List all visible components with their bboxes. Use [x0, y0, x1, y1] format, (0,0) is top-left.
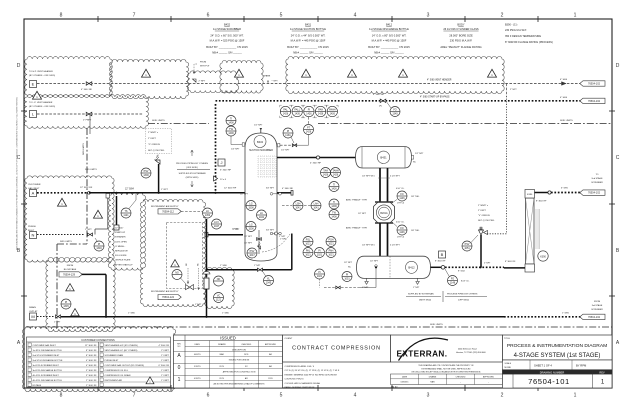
svg-text:LC: LC [260, 212, 263, 215]
discharge pipe to cooler [431, 266, 442, 268]
svg-text:INSTRUMENT AIR SUPPLY: INSTRUMENT AIR SUPPLY [151, 290, 179, 293]
svg-text:SUCTION SCRUBBER: SUCTION SCRUBBER [249, 150, 273, 152]
svg-text:B412: B412 [386, 23, 393, 27]
svg-text:INSTRUMENT AIR SUPPLY: INSTRUMENT AIR SUPPLY [151, 205, 179, 208]
skid limits line bottom [26, 326, 612, 328]
svg-text:3" 300# RF: 3" 300# RF [86, 375, 97, 377]
svg-text:1" FNPT: 1" FNPT [161, 380, 170, 382]
svg-text:5: 5 [280, 13, 283, 19]
svg-text:2" NPT: 2" NPT [510, 89, 517, 91]
svg-text:1426: 1426 [330, 113, 336, 116]
svg-text:FO: FO [393, 108, 396, 111]
svg-text:RCS: RCS [220, 366, 225, 368]
drain valve on loop [258, 268, 263, 271]
svg-text:(BY OTHERS - OFF SKID): (BY OTHERS - OFF SKID) [29, 106, 55, 108]
svg-text:1/2" NPT: 1/2" NPT [254, 125, 263, 127]
purge inlet note [28, 226, 36, 232]
mesh pad in scrubber [258, 156, 276, 177]
svg-text:1121: 1121 [123, 214, 129, 217]
client box [283, 335, 391, 362]
instrument XL 1045 bubble [264, 276, 274, 286]
discharge legs to B412 [379, 223, 381, 257]
svg-text:ORIFICE PLATE: ORIFICE PLATE [115, 259, 131, 262]
svg-text:B432: B432 [224, 23, 231, 27]
svg-text:RCS: RCS [244, 354, 249, 356]
svg-text:PAL: PAL [306, 249, 311, 252]
flag 76504-129 [59, 272, 82, 277]
svg-text:FO: FO [400, 227, 403, 230]
revision triangle top row [142, 69, 151, 77]
svg-text:1" FNPT: 1" FNPT [161, 370, 170, 372]
svg-text:BUILT BY: ____________ Y/N 2: BUILT BY: ____________ Y/N 2015 [368, 45, 410, 49]
svg-text:1021: 1021 [317, 254, 323, 257]
svg-text:1" NPT: 1" NPT [161, 189, 169, 191]
svg-text:J: J [221, 160, 223, 165]
svg-text:NO: NO [175, 271, 179, 274]
svg-text:2" FNPT: 2" FNPT [161, 350, 170, 352]
svg-text:1047: 1047 [249, 254, 255, 257]
svg-text:CHECKED: CHECKED [241, 344, 251, 346]
vessel B431 suction bottle [356, 147, 412, 168]
svg-text:1041: 1041 [313, 207, 319, 210]
svg-text:6" 300# RF: 6" 300# RF [220, 170, 232, 172]
svg-text:1/2" NPT: 1/2" NPT [240, 194, 249, 196]
svg-text:4" 300# RF: 4" 300# RF [86, 360, 97, 362]
HP vent header pipe dashed [37, 83, 288, 85]
svg-text:NAR: NAR [430, 381, 435, 384]
svg-text:~" NPT: ~" NPT [271, 81, 278, 83]
svg-text:(OFF SKID): (OFF SKID) [186, 167, 198, 169]
svg-text:CHECKED: CHECKED [456, 377, 466, 379]
connection box A [30, 190, 37, 197]
svg-text:2" NPT: 2" NPT [232, 229, 239, 231]
svg-text:RCS: RCS [268, 378, 273, 380]
svg-text:B: B [441, 252, 444, 257]
svg-text:1400: 1400 [228, 122, 234, 125]
svg-text:PSH: PSH [329, 238, 334, 241]
svg-text:1300: 1300 [143, 174, 149, 177]
svg-text:7: 7 [133, 393, 136, 399]
instrument FO 1146 bottom bubble [397, 225, 407, 235]
pipe junction dots [105, 316, 107, 318]
svg-text:CUSTOMER GAS INLET: CUSTOMER GAS INLET [33, 344, 57, 347]
svg-text:PI: PI [346, 273, 349, 276]
svg-text:1" NPT: 1" NPT [362, 287, 369, 289]
svg-text:DESCRIPTION: DESCRIPTION [232, 350, 246, 352]
scope split note center [176, 150, 210, 187]
svg-text:0: 0 [178, 365, 181, 371]
svg-text:1146: 1146 [399, 197, 405, 200]
svg-text:2" 300# RF: 2" 300# RF [86, 385, 97, 387]
svg-text:76504-101: 76504-101 [528, 377, 570, 386]
svg-text:SPARE: SPARE [263, 75, 271, 78]
scrubber spare nozzle 4in [277, 192, 291, 194]
svg-text:PSL: PSL [306, 238, 311, 241]
svg-text:1021: 1021 [305, 243, 311, 246]
svg-text:TI: TI [333, 183, 335, 186]
svg-text:76504-102: 76504-102 [588, 83, 601, 86]
svg-text:NB # ______ S/N ______: NB # ______ S/N ______ [374, 51, 404, 55]
svg-text:STRAINER: STRAINER [115, 236, 126, 239]
svg-text:4/02/15: 4/02/15 [194, 354, 202, 356]
svg-text:TI: TI [333, 201, 335, 204]
svg-text:0.50" I.D.: 0.50" I.D. [396, 188, 405, 190]
svg-text:PI: PI [318, 249, 321, 252]
svg-text:76504-122: 76504-122 [162, 296, 175, 299]
svg-text:4/12/15: 4/12/15 [194, 378, 202, 380]
svg-text:AREL "PEANUT" TYPE: AREL "PEANUT" TYPE [346, 199, 368, 202]
revision triangle blowcase [66, 284, 75, 291]
svg-text:8" 300# RF: 8" 300# RF [536, 201, 547, 203]
svg-text:SKID LIMITS: SKID LIMITS [85, 169, 97, 171]
svg-text:4" 300# RF: 4" 300# RF [159, 345, 170, 347]
svg-text:AFTER START-UP: AFTER START-UP [115, 263, 133, 266]
svg-text:BY-PASS: BY-PASS [33, 384, 42, 387]
svg-text:12" 300# RF: 12" 300# RF [224, 188, 237, 190]
svg-text:1: 1 [574, 13, 577, 19]
tee to 2 NPT on vent [506, 84, 508, 97]
svg-text:2: 2 [501, 393, 504, 399]
drawing number block [503, 370, 613, 388]
svg-text:EXTERRAN.: EXTERRAN. [397, 350, 448, 359]
instrument LCV 1047 bubble [212, 219, 222, 229]
svg-text:1146: 1146 [399, 231, 405, 234]
node L to LP vent header [29, 101, 55, 108]
svg-text:1051: 1051 [464, 247, 470, 250]
svg-text:APPROVED: APPROVED [265, 343, 277, 346]
valve on HP vent line [86, 82, 92, 85]
svg-text:(F): (F) [379, 106, 382, 108]
discharge PSV note block [478, 205, 495, 222]
svg-text:VENT HEADER-H.P. (BY OTHERS): VENT HEADER-H.P. (BY OTHERS) [105, 344, 138, 347]
svg-text:START-UP: START-UP [115, 231, 126, 234]
scrubber drain piping loop [205, 229, 292, 270]
svg-text:6" 300# RF: 6" 300# RF [159, 365, 170, 367]
PSV vent dotted to header [487, 233, 507, 235]
svg-text:B432: B432 [257, 140, 264, 144]
B412 drain valves [362, 278, 420, 289]
svg-text:2nd STAGE: 2nd STAGE [592, 177, 604, 180]
svg-text:TO: TO [596, 174, 599, 176]
svg-text:SKID LIMITS: SKID LIMITS [83, 143, 85, 155]
svg-text:SCRUBBER: SCRUBBER [591, 182, 603, 184]
svg-text:3/4" NPT: 3/4" NPT [266, 230, 275, 232]
svg-text:PT: PT [307, 126, 311, 129]
svg-text:INSTRUMENT AIR: INSTRUMENT AIR [105, 379, 123, 382]
svg-text:(TYP. 2): (TYP. 2) [397, 237, 405, 239]
svg-text:SUPPLIED BY EXTERRAN: SUPPLIED BY EXTERRAN [179, 172, 206, 175]
svg-text:SET @ 230 PSIG: SET @ 230 PSIG [148, 150, 165, 152]
svg-text:4" S/60 VENT HEADER: 4" S/60 VENT HEADER [427, 79, 452, 82]
instrument PI 1345 bubble [61, 299, 71, 309]
drain outlet note [29, 306, 38, 313]
instrument LC 1452 bubble [203, 208, 213, 218]
svg-text:3" 300# RF: 3" 300# RF [86, 370, 97, 372]
cooler outlet pipe [535, 192, 549, 194]
vessel B432 suction scrubber [245, 133, 277, 261]
svg-text:12" 300# RF: 12" 300# RF [85, 345, 97, 347]
scale sheet row [503, 360, 613, 370]
pressure alarm bubble row PAL PALL PI PAH PAHH [280, 106, 290, 116]
svg-text:76504-102: 76504-102 [588, 316, 601, 319]
svg-text:FROM: FROM [200, 62, 206, 64]
svg-text:1/2" NPT: 1/2" NPT [244, 236, 253, 238]
svg-text:1426: 1426 [283, 113, 289, 116]
svg-text:DRAIN: DRAIN [29, 306, 36, 309]
svg-text:1021: 1021 [305, 254, 311, 257]
svg-text:PAH: PAH [329, 249, 334, 252]
svg-text:NB # ______ S/N ______: NB # ______ S/N ______ [212, 51, 242, 55]
svg-text:BUILT BY: ____________ Y/N 2: BUILT BY: ____________ Y/N 2015 [206, 45, 248, 49]
svg-text:TS: TS [124, 210, 127, 213]
svg-text:WTR POT: WTR POT [200, 66, 210, 68]
svg-text:1345: 1345 [63, 305, 69, 308]
instrument PT 1426 bubble [304, 125, 314, 135]
svg-text:1" FNPT: 1" FNPT [161, 375, 170, 377]
equipment note compressor cylinder body [440, 23, 481, 50]
revision cloud customer connections table [22, 326, 175, 391]
start-up strainer drop [116, 196, 118, 225]
svg-text:8: 8 [60, 13, 63, 19]
svg-text:3/4" NPT: 3/4" NPT [266, 188, 275, 190]
svg-text:2" FNPT: 2" FNPT [148, 138, 157, 140]
svg-text:DRAWN: DRAWN [429, 376, 437, 379]
svg-text:1" FNPT: 1" FNPT [161, 360, 170, 362]
svg-text:8.03" I.D.: 8.03" I.D. [461, 281, 470, 283]
svg-text:TAH: TAH [323, 169, 328, 172]
instrument valve on PT tap [292, 144, 296, 147]
svg-text:03/18/15: 03/18/15 [401, 382, 410, 384]
revision cloud top small [109, 59, 188, 98]
revision triangle table [146, 377, 154, 384]
svg-text:5/12/15: 5/12/15 [194, 366, 202, 368]
instrument PI 1021 bubble [315, 269, 325, 279]
cooler fin coil [535, 210, 539, 248]
svg-text:COUPLING: F3H-70: COUPLING: F3H-70 [285, 379, 305, 381]
svg-text:1/2" NPT: 1/2" NPT [281, 150, 290, 152]
svg-text:CUSTOMER GAS OUTLET (BY OTHERS: CUSTOMER GAS OUTLET (BY OTHERS) [105, 364, 145, 367]
bubble NO in air box [172, 270, 182, 280]
svg-text:LG: LG [249, 223, 252, 226]
from blowcase note [64, 265, 77, 271]
svg-text:1/4" NPT W/ 0: 1/4" NPT W/ 0 [362, 245, 376, 247]
instrument XL 1047 bubble [247, 248, 257, 258]
svg-text:FO: FO [451, 277, 454, 280]
svg-text:PAL: PAL [283, 108, 288, 111]
svg-text:FROM: FROM [67, 265, 74, 267]
svg-text:(BY OTHERS - OFF SKID): (BY OTHERS - OFF SKID) [29, 75, 55, 77]
svg-text:4" 300# RF: 4" 300# RF [373, 94, 385, 96]
svg-text:1426: 1426 [323, 174, 329, 177]
svg-text:1500: 1500 [248, 228, 254, 231]
svg-text:NB # ______ S/N ______: NB # ______ S/N ______ [293, 51, 323, 55]
svg-text:AS NOTED PER ENGINEERING & HAZ: AS NOTED PER ENGINEERING & HAZOP COMMENT… [214, 382, 266, 385]
svg-text:1426: 1426 [306, 131, 312, 134]
svg-text:4" 300# RF: 4" 300# RF [86, 365, 97, 367]
svg-text:8" S/42: 8" S/42 [458, 271, 466, 273]
svg-text:SKID LIMITS: SKID LIMITS [60, 241, 72, 243]
svg-text:5: 5 [280, 393, 283, 399]
customer gas inlet note [28, 184, 41, 190]
customer inlet pipe dotted [37, 192, 89, 194]
air pilot valve [186, 285, 194, 290]
revision cloud start-up strainer [108, 193, 145, 270]
svg-text:0.50" I.D.: 0.50" I.D. [396, 222, 405, 224]
flag 76504-112 [158, 209, 181, 214]
svg-text:12 x 6: 12 x 6 [220, 179, 227, 181]
svg-text:PANEL: MURPHY CENTURION: PANEL: MURPHY CENTURION [285, 386, 315, 389]
svg-text:1: 1 [178, 377, 181, 383]
instrument PI 1346 bubble [94, 241, 104, 251]
svg-text:CLIENT: CLIENT [285, 338, 293, 340]
svg-text:ISSUED: ISSUED [220, 336, 236, 341]
instrument FO 1148 bubble [448, 276, 458, 286]
svg-text:1" NPT: 1" NPT [280, 239, 287, 241]
svg-text:100% OPEN: 100% OPEN [115, 241, 127, 243]
revision cloud instrument air supply [140, 199, 205, 306]
connection box L [30, 111, 37, 118]
svg-text:2: 2 [501, 13, 504, 19]
svg-text:PROCESS PIPING BY OTHERS: PROCESS PIPING BY OTHERS [447, 294, 478, 296]
svg-text:D: D [616, 63, 620, 69]
svg-text:CONTRACT COMPRESSION: CONTRACT COMPRESSION [292, 346, 381, 352]
skid limits line left vertical [86, 128, 88, 244]
svg-text:"V" ORIFICE: "V" ORIFICE [478, 215, 490, 217]
svg-text:CUSTOMER: CUSTOMER [28, 184, 41, 186]
svg-text:1045: 1045 [266, 282, 272, 285]
svg-text:APPROVED FOR CONSTRUCTION: APPROVED FOR CONSTRUCTION [223, 370, 256, 373]
svg-text:1" S/80: 1" S/80 [220, 265, 228, 267]
connection box B discharge [439, 251, 446, 258]
svg-text:1345: 1345 [392, 113, 398, 116]
svg-text:1/4" NPT W/ 0: 1/4" NPT W/ 0 [362, 176, 376, 178]
svg-text:1452: 1452 [205, 214, 211, 217]
spare valve angle [193, 79, 197, 82]
svg-text:1400: 1400 [331, 216, 337, 219]
strainer note text [115, 228, 133, 267]
svg-text:(WITH SKID): (WITH SKID) [186, 177, 199, 179]
svg-text:6: 6 [207, 393, 210, 399]
svg-text:PROCESS PIPING BY OTHERS: PROCESS PIPING BY OTHERS [176, 163, 208, 165]
svg-text:SCRUBBER: SCRUBBER [591, 309, 603, 311]
from water pot note [193, 62, 211, 75]
svg-text:TO L.P. VENT HEADER: TO L.P. VENT HEADER [29, 101, 53, 104]
PSV riser pipe [158, 164, 160, 193]
purge inlet pipe dotted [37, 234, 84, 236]
svg-text:B412: B412 [408, 266, 415, 270]
flag 76504-102 bottom [580, 314, 605, 319]
equipment note B431 1st stage suction bottle [287, 23, 329, 55]
svg-text:8: 8 [60, 393, 63, 399]
svg-text:1: 1 [574, 393, 577, 399]
svg-text:APPROVED: APPROVED [483, 376, 495, 379]
svg-text:LG: LG [249, 202, 252, 205]
drain outlet pipe dotted [37, 316, 54, 318]
svg-text:12" S/84: 12" S/84 [125, 189, 134, 191]
svg-text:E: E [32, 82, 35, 87]
instrument air dashed box [167, 223, 203, 289]
svg-text:12" 300#: 12" 300# [115, 228, 124, 230]
revision cloud blowcase line [46, 257, 115, 331]
svg-text:PSV: PSV [144, 170, 149, 173]
svg-text:Houston, TX 77041 (281) 854-30: Houston, TX 77041 (281) 854-3000 [456, 351, 486, 354]
svg-text:ISSUED FOR DESIGN: ISSUED FOR DESIGN [229, 359, 250, 361]
PT PI instrument tap on scrubber [278, 144, 280, 147]
svg-text:4" 300# RF: 4" 300# RF [81, 89, 93, 91]
svg-text:3rd STAGE: 3rd STAGE [592, 304, 603, 307]
instrument TS 1121 bubble [121, 208, 131, 218]
node E to HP vent header [29, 70, 55, 77]
instrument PSV 1051 bubble [462, 241, 472, 251]
svg-text:1st STAGE SUCTION BOTTLE: 1st STAGE SUCTION BOTTLE [290, 27, 326, 31]
air lines to LCVs [187, 268, 189, 284]
svg-text:PALL: PALL [294, 108, 300, 111]
drain header dotted to flag [504, 316, 583, 318]
connection box J customer gas outlet [218, 159, 225, 166]
svg-text:M.A.W.P. = 525 PSIG @ 150F: M.A.W.P. = 525 PSIG @ 150F [210, 39, 245, 43]
revision triangle 1 [33, 91, 42, 99]
svg-text:N: N [32, 233, 35, 238]
svg-text:PI: PI [287, 130, 290, 133]
svg-text:4" S/60 START-UP BY-PASS: 4" S/60 START-UP BY-PASS [420, 96, 450, 99]
svg-text:SKID LIMITS: SKID LIMITS [560, 120, 573, 122]
svg-text:1" S/80: 1" S/80 [222, 313, 230, 315]
svg-text:24" O.D. x 44" S/S 0.500" WT.: 24" O.D. x 44" S/S 0.500" WT. [291, 34, 326, 38]
scrubber outlet suction pipe to B431 [277, 157, 356, 159]
svg-text:COOLER: AIR-X-CHANGERS 108-AH: COOLER: AIR-X-CHANGERS 108-AH [285, 382, 321, 385]
svg-text:DATE: DATE [402, 376, 408, 379]
revision cloud mid top [187, 71, 238, 93]
svg-text:SKID LIMITS: SKID LIMITS [152, 120, 165, 122]
start-up bypass pipe dotted [215, 104, 217, 192]
svg-text:1346: 1346 [96, 247, 102, 250]
svg-text:LCV: LCV [214, 221, 219, 224]
svg-text:M: M [31, 314, 34, 319]
svg-text:D: D [17, 63, 21, 69]
drawn date strip [391, 374, 503, 389]
svg-text:PI: PI [98, 243, 101, 246]
svg-text:KAT NO: KAT NO [391, 386, 398, 389]
svg-text:4" S/60: 4" S/60 [560, 79, 568, 81]
instrument VC 1121 bubble [214, 293, 224, 303]
svg-text:NO: NO [217, 278, 221, 281]
svg-text:8" 300# RF: 8" 300# RF [435, 261, 446, 263]
svg-text:3rd STG SCRUBBER INLET: 3rd STG SCRUBBER INLET [33, 364, 60, 367]
svg-text:2" NPT: 2" NPT [199, 81, 206, 83]
svg-text:AREL "PEANUT" TYPE: AREL "PEANUT" TYPE [346, 227, 368, 230]
drain valve [56, 315, 61, 318]
svg-text:B431: B431 [305, 23, 312, 27]
svg-text:1051: 1051 [344, 278, 350, 281]
svg-text:6: 6 [207, 13, 210, 19]
title block [503, 335, 613, 360]
svg-text:1" S/96: 1" S/96 [562, 313, 570, 315]
purge valve [88, 233, 93, 236]
purge riser to suction line [107, 196, 109, 229]
revision cloud HP vent header [25, 57, 112, 98]
svg-text:THIS DRAWING AND ITS CONTENTS: THIS DRAWING AND ITS CONTENTS ARE THE PR… [418, 364, 474, 367]
svg-text:1/2" NPT: 1/2" NPT [344, 262, 353, 264]
instrument FO 1146 top bubble [397, 191, 407, 201]
svg-text:TAHH: TAHH [332, 169, 339, 172]
svg-text:RCS: RCS [220, 378, 225, 380]
svg-text:1st STG DISCHARGE BOTTLE: 1st STG DISCHARGE BOTTLE [33, 349, 63, 352]
svg-text:1" NPT: 1" NPT [54, 322, 61, 324]
svg-text:COMPRESSOR OIL DRAIN: COMPRESSOR OIL DRAIN [105, 374, 131, 377]
level drain valves under scrubber [244, 230, 261, 254]
svg-text:4444 Brittmoore Road: 4444 Brittmoore Road [458, 348, 477, 351]
flag 76504-122 [158, 295, 181, 300]
